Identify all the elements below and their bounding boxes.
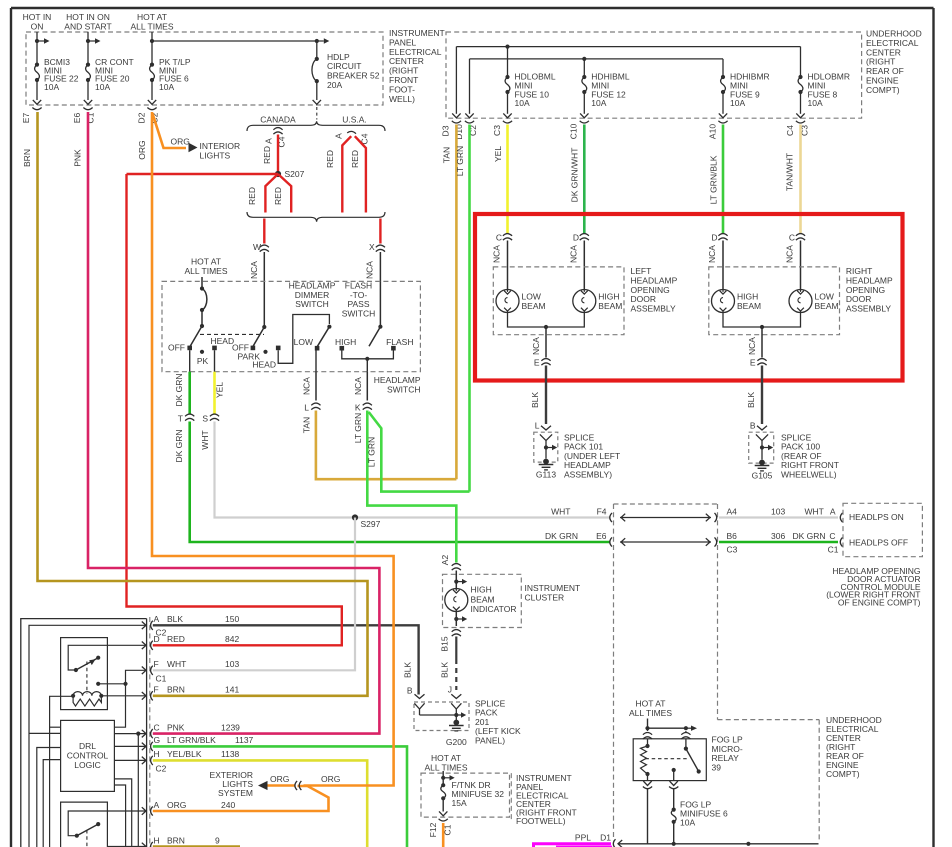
left headlamp opening door assembly box (493, 267, 624, 335)
svg-text:DK GRN: DK GRN (793, 531, 826, 541)
wire fuse22 out (36, 80, 38, 100)
wire NCA from W (263, 252, 265, 327)
wire BLK right to splice G105 (761, 366, 763, 425)
wire RED to X (379, 219, 381, 244)
node fog coil bottom (645, 772, 649, 776)
node dimmer common W (262, 325, 266, 329)
wire logic box pin right lower 2 (114, 785, 125, 847)
svg-text:HOT AT: HOT AT (191, 257, 221, 267)
brace CANADA/USA (top) (247, 121, 385, 131)
splice pack 101 box (534, 432, 558, 462)
svg-text:HOT AT: HOT AT (636, 699, 666, 709)
arrow into G200 right (451, 694, 461, 698)
splice Y G105 (756, 434, 768, 447)
arrow to exterior lights system (258, 781, 268, 790)
underhood electrical center box (top right) (446, 32, 862, 118)
connector A10 (718, 121, 727, 123)
wire LT GRN/BLK row G down (153, 746, 407, 847)
svg-text:E: E (534, 358, 540, 368)
svg-text:BEAM: BEAM (815, 301, 839, 311)
lamp HIGH BEAM INDICATOR (445, 589, 468, 612)
lamp LOW BEAM (left) (496, 290, 519, 313)
connector X (376, 245, 385, 247)
lamp HIGH BEAM (left) (573, 290, 596, 313)
svg-text:C2: C2 (156, 764, 167, 774)
arrow into splice G113 (541, 426, 551, 430)
svg-text:OF ENGINE COMPT): OF ENGINE COMPT) (838, 598, 921, 608)
right headlamp opening door assembly box (709, 267, 840, 335)
wire RED USA right leg (355, 136, 366, 212)
svg-text:YEL/BLK: YEL/BLK (167, 749, 202, 759)
wire RED row D path (127, 174, 342, 645)
connector switch feed (685, 731, 687, 732)
wire NCA to left low lamp (507, 241, 509, 290)
svg-text:B: B (750, 421, 756, 431)
fuse HDHIBMR MINI FUSE 9 (722, 59, 724, 77)
svg-text:SYSTEM: SYSTEM (218, 788, 253, 798)
svg-text:TAN: TAN (442, 147, 452, 163)
node F/TNK feed (441, 776, 445, 780)
connector pin F WHT 103 (142, 667, 146, 675)
terminal HEAD (selector) (276, 346, 281, 351)
node fog switch pivot (684, 747, 688, 751)
svg-text:ORG: ORG (137, 140, 147, 159)
svg-text:CANADA: CANADA (260, 115, 296, 125)
svg-text:E7: E7 (21, 113, 31, 124)
instrument panel electrical center box (top) (26, 32, 383, 105)
connector C (right low beam) (796, 234, 805, 236)
ground G200 (453, 720, 459, 726)
wire BRN row F from E7 (38, 112, 368, 696)
wire feed bus 2 (lower) (470, 58, 724, 60)
wire NCA to left high lamp (583, 241, 585, 290)
svg-text:10A: 10A (808, 98, 823, 108)
svg-text:C3: C3 (727, 545, 738, 555)
svg-text:DK GRN: DK GRN (174, 373, 184, 406)
svg-text:BRN: BRN (22, 149, 32, 167)
svg-text:103: 103 (771, 507, 785, 517)
node bus tap (746, 842, 750, 846)
svg-text:YEL: YEL (493, 146, 503, 162)
connector A / C4 (Canada) (273, 128, 282, 130)
terminal PARK (263, 350, 267, 354)
wire LT GRN/BLK from A10 (722, 125, 725, 234)
svg-text:F12: F12 (428, 822, 438, 837)
switch blade park/head to OFF (253, 327, 264, 346)
svg-text:NCA: NCA (249, 261, 259, 279)
svg-text:HOT AT: HOT AT (431, 753, 461, 763)
svg-text:PANEL): PANEL) (475, 735, 505, 745)
svg-text:HEADLPS ON: HEADLPS ON (849, 512, 904, 522)
wire G200 tap to ground (455, 715, 457, 720)
svg-text:C: C (154, 722, 160, 732)
terminal OFF (rotary) (187, 346, 192, 351)
svg-text:C1: C1 (156, 674, 167, 684)
fuse F/TNK DR MINIFUSE 32 15A element (441, 785, 446, 798)
arrow bus left (618, 840, 622, 847)
connector C (left low beam) (503, 234, 512, 236)
headlamp door actuator control module box (843, 503, 922, 556)
arrow tap right (88, 40, 95, 42)
splice pack 201 box (414, 702, 469, 731)
svg-text:10A: 10A (44, 82, 59, 92)
fuse FOG LP MINIFUSE 6 10A element (671, 810, 676, 822)
svg-text:COMPT): COMPT) (866, 85, 900, 95)
node indicator tap bottom (454, 617, 458, 621)
svg-text:HEADLPS OFF: HEADLPS OFF (849, 538, 908, 548)
wire HEAD elbow to dimmer (278, 315, 329, 364)
connector S (210, 414, 219, 416)
wire ORG to break (left) (268, 784, 295, 787)
wire F/TNK out (442, 798, 444, 811)
svg-text:C10: C10 (569, 123, 579, 139)
connector pin D RED 842 (142, 642, 146, 650)
wire fog relay feed (647, 719, 649, 732)
arrow G113 tap (552, 445, 557, 450)
svg-text:A: A (830, 507, 836, 517)
node breaker feed (315, 39, 319, 43)
connector C4 / C3 (796, 121, 805, 123)
svg-text:HEAD: HEAD (211, 336, 235, 346)
node fog feed right (684, 726, 688, 730)
svg-text:20A: 20A (327, 80, 342, 90)
DRL connector dashed line (149, 617, 151, 847)
connector pin A ORG 240 (142, 807, 146, 815)
node relay pivot (74, 668, 78, 672)
wire fuse feed PK T/LP (151, 32, 153, 65)
wire BLK left to splice G113 (545, 366, 547, 425)
svg-text:A10: A10 (708, 124, 718, 139)
svg-text:NCA: NCA (492, 245, 502, 263)
splice Y G200 left (414, 703, 424, 715)
connector E (right) (757, 359, 766, 361)
mechanical link relay dashed (86, 662, 88, 694)
node relay contact out (96, 682, 100, 686)
wire logic box pin to row G (114, 745, 146, 747)
svg-text:H: H (154, 835, 160, 845)
wire logic box pin to row C PNK (114, 733, 146, 735)
wire DK GRN from T to E6 row (190, 422, 610, 543)
svg-text:HIGH: HIGH (471, 585, 492, 595)
svg-text:WHT: WHT (200, 430, 210, 449)
wire nested vertical 3 (43, 760, 60, 847)
node G113 tap (544, 445, 548, 449)
svg-text:ALL TIMES: ALL TIMES (131, 22, 174, 32)
wire jumper DK GRN inside box (620, 541, 711, 543)
wire RED to W (263, 219, 265, 244)
wire BLK dashed to J (455, 659, 457, 690)
svg-text:NCA: NCA (569, 245, 579, 263)
wire G200 bus (420, 714, 462, 716)
wire fog bus (618, 843, 819, 845)
svg-text:150: 150 (225, 614, 239, 624)
connector E6 / C1 (83, 108, 92, 110)
svg-text:A: A (154, 800, 160, 810)
svg-text:10A: 10A (680, 818, 695, 828)
arrow into G200 left (415, 694, 425, 698)
svg-text:E6: E6 (596, 531, 607, 541)
inductor relay coil (scallops) (73, 692, 101, 696)
svg-text:10A: 10A (591, 98, 606, 108)
svg-text:PNK: PNK (73, 149, 83, 167)
terminal LOW (315, 346, 320, 351)
connector F4 (610, 513, 612, 522)
wire F/TNK feed (442, 771, 444, 785)
label INSTRUMENT PANEL ELECTRICAL CENTER (lower) (510, 773, 512, 822)
connector coil feed (643, 733, 652, 735)
svg-text:X: X (369, 242, 375, 252)
svg-text:LT GRN/BLK: LT GRN/BLK (167, 735, 216, 745)
svg-text:RED: RED (247, 187, 257, 205)
wire fuse feed BCMI3 (36, 32, 38, 65)
wire RED S207 right branch down (278, 174, 291, 213)
connector pin H BRN 9 (142, 843, 146, 847)
connector K (363, 403, 372, 405)
wire WHT from S to S297/F4 (215, 422, 610, 518)
wire ORG branch interior lights (153, 114, 187, 149)
wire TAN/WHT from C4 (799, 125, 802, 234)
wire RED USA left leg (342, 136, 351, 212)
connector pin F BRN 141 (142, 692, 146, 700)
wire ORG below F12 (442, 823, 445, 847)
svg-text:K: K (355, 403, 361, 413)
svg-text:A4: A4 (727, 507, 738, 517)
instrument panel electrical center box (lower) (421, 773, 510, 817)
connector L (311, 403, 320, 405)
connector C10 (580, 121, 589, 123)
wire fuse feed CR CONT (87, 32, 89, 65)
wire row A ORG into lower switch (68, 811, 146, 836)
svg-text:A: A (264, 138, 274, 144)
node fuse6 feed (150, 39, 154, 43)
svg-text:15A: 15A (452, 798, 467, 808)
wire G113 to ground (545, 448, 547, 459)
connector A (module) (840, 513, 842, 522)
connector C/C1 (module) (840, 537, 842, 546)
page border frame (11, 7, 934, 9)
svg-text:TAN: TAN (302, 417, 312, 433)
headlamp switch assembly box (162, 281, 420, 371)
connector D3 (452, 121, 461, 123)
svg-text:U.S.A.: U.S.A. (342, 115, 367, 125)
wire RED S207 to DRL (left) (127, 173, 279, 175)
splice Y G113 (540, 434, 552, 447)
svg-text:B15: B15 (440, 636, 450, 651)
wire coil left out (50, 696, 74, 847)
connector A4 (715, 513, 717, 522)
connector pin C PNK 1239 (142, 730, 146, 738)
instrument cluster / indicator box (443, 574, 522, 627)
node S207 splice (275, 171, 281, 177)
arrow G200 tap (461, 712, 466, 717)
relay box FOG LP MICRO-RELAY 39 (633, 739, 706, 781)
switch blade flash (neutral) (369, 327, 380, 347)
DRL CONTROL LOGIC box (61, 720, 115, 791)
svg-text:FOOTWELL): FOOTWELL) (516, 816, 566, 826)
wire indicator out (455, 611, 457, 627)
wire F WHT junction down to logic box (114, 684, 125, 727)
connector D10 / C2 (465, 121, 474, 123)
svg-text:BLK: BLK (746, 392, 756, 408)
arrow tap right (317, 40, 324, 42)
svg-text:SWITCH: SWITCH (295, 299, 329, 309)
connector F12 / C1 (439, 819, 448, 821)
ground G105 (759, 460, 765, 466)
wire TAN from D3 (455, 125, 458, 480)
arrow into splice G105 (757, 426, 767, 430)
svg-text:BLK: BLK (440, 662, 450, 678)
connector pin G LT GRN/BLK 1137 (142, 743, 146, 751)
svg-text:DK GRN: DK GRN (545, 531, 578, 541)
wire feed bus 1 (upper) (456, 46, 800, 48)
svg-text:10A: 10A (515, 98, 530, 108)
svg-text:HOT IN: HOT IN (23, 12, 52, 22)
wire NCA below LOW (315, 372, 317, 401)
wire row F WHT net (126, 670, 147, 684)
svg-text:G200: G200 (446, 737, 467, 747)
svg-text:842: 842 (225, 634, 239, 644)
svg-text:F: F (154, 685, 159, 695)
wire RED canada to S207 (277, 135, 279, 175)
wire dashed stub breaker to brace (316, 107, 318, 120)
svg-text:1138: 1138 (221, 749, 240, 759)
svg-text:LOW: LOW (522, 292, 541, 302)
svg-text:COMPT): COMPT) (826, 769, 860, 779)
wire row H BRN stub (107, 846, 146, 847)
node flash pivot (378, 325, 382, 329)
svg-text:H: H (154, 749, 160, 759)
svg-text:ON: ON (31, 22, 44, 32)
connector D (right high beam) (718, 234, 727, 236)
terminal OFF (selector) (251, 346, 256, 351)
svg-text:A: A (154, 614, 160, 624)
connector T (185, 414, 194, 416)
node F WHT junction (123, 682, 127, 686)
wire OFF terminal down (rotary) (189, 350, 191, 372)
svg-text:LT GRN: LT GRN (455, 146, 465, 176)
splice Y G200 right (451, 703, 461, 715)
node left lamps junction (544, 325, 548, 329)
svg-text:C2: C2 (156, 627, 167, 637)
svg-text:103: 103 (225, 659, 239, 669)
svg-text:B6: B6 (727, 531, 738, 541)
svg-text:LT GRN: LT GRN (353, 413, 363, 443)
wire coil to box bottom (647, 774, 649, 781)
connector E6 (610, 537, 612, 546)
svg-text:SWITCH: SWITCH (387, 384, 421, 394)
svg-text:NCA: NCA (302, 377, 312, 395)
wire NCA left assembly out (545, 327, 547, 358)
wire fog coil to bus (647, 789, 649, 844)
connector E7 (32, 108, 41, 110)
svg-text:HEAD: HEAD (252, 360, 276, 370)
svg-text:ORG: ORG (167, 800, 186, 810)
svg-text:FLASH: FLASH (386, 337, 413, 347)
svg-text:CONTROL: CONTROL (67, 751, 109, 761)
svg-text:C: C (789, 233, 795, 243)
wire K down inside box (366, 359, 368, 372)
connector D (left high beam) (580, 234, 589, 236)
svg-text:BLK: BLK (530, 392, 540, 408)
svg-text:D: D (711, 233, 717, 243)
svg-text:BEAM: BEAM (737, 301, 761, 311)
arrow output out (670, 781, 678, 785)
svg-text:ORG: ORG (270, 774, 289, 784)
svg-text:HOT AT: HOT AT (137, 12, 167, 22)
fuse CR CONT MINI FUSE 20 10A element (86, 65, 91, 80)
tall dashed box (headlamp door actuator harness) (614, 503, 718, 505)
fuse PK T/LP MINI FUSE 6 10A element (150, 65, 155, 80)
svg-text:DK GRN/WHT: DK GRN/WHT (570, 148, 580, 203)
svg-text:NCA: NCA (531, 337, 541, 355)
node fog relay output (672, 768, 676, 772)
relay box (DRL lower switch) (61, 802, 108, 847)
wire DK GRN above T (188, 372, 191, 414)
connector C3 (503, 121, 512, 123)
svg-text:ORG: ORG (171, 137, 190, 147)
wire ORG row A (240) (153, 786, 329, 811)
node lower switch pivot (75, 834, 79, 838)
lamp LOW BEAM (right) (789, 290, 812, 313)
wire YEL above S (213, 372, 216, 414)
wire left lamps common (508, 313, 585, 328)
svg-text:39: 39 (712, 763, 722, 773)
svg-text:HIGH: HIGH (335, 337, 356, 347)
switch blade (rotary) to OFF (190, 326, 202, 346)
wire BRN row H (9) (153, 845, 240, 847)
node G105 tap (760, 445, 764, 449)
wire fog output to box bottom (673, 770, 675, 781)
svg-text:INSTRUMENT: INSTRUMENT (525, 583, 581, 593)
svg-text:D2: D2 (137, 112, 147, 123)
svg-text:WHT: WHT (167, 659, 186, 669)
node dimmer pivot (327, 325, 331, 329)
svg-text:C1: C1 (828, 545, 839, 555)
svg-text:D1: D1 (600, 833, 611, 843)
svg-text:G105: G105 (752, 471, 773, 481)
svg-text:C4: C4 (785, 125, 795, 136)
wire TAN from L to D3 column (316, 411, 457, 480)
svg-text:BRN: BRN (167, 685, 185, 695)
wire nested vertical 2 (37, 748, 61, 847)
wire DK GRN/WHT from C10 (583, 125, 586, 234)
svg-text:ASSEMBLY): ASSEMBLY) (564, 469, 612, 479)
node bus fuse join (672, 842, 676, 846)
wire NCA from X (379, 252, 381, 327)
svg-text:F: F (154, 659, 159, 669)
svg-text:9: 9 (215, 835, 220, 845)
wire WHT to HEADLPS ON (719, 516, 838, 518)
svg-text:YEL: YEL (215, 382, 225, 398)
svg-text:S207: S207 (285, 169, 305, 179)
svg-text:WHEELWELL): WHEELWELL) (781, 469, 837, 479)
wire YEL/BLK row H down (153, 760, 367, 847)
svg-text:S: S (202, 414, 208, 424)
svg-text:BEAM: BEAM (471, 594, 495, 604)
terminal HIGH (340, 346, 345, 351)
svg-text:INDICATOR: INDICATOR (471, 604, 517, 614)
node fog coil top (645, 744, 649, 748)
svg-text:10A: 10A (730, 98, 745, 108)
wire LT GRN branch K to high-beam indicator (367, 411, 456, 563)
svg-text:A: A (334, 133, 344, 139)
wire stub A to logic box (29, 732, 61, 734)
connector D2 / C2 (147, 108, 156, 110)
wire RED S207 left branch down (265, 174, 278, 213)
svg-text:ASSEMBLY: ASSEMBLY (631, 304, 677, 314)
svg-text:306: 306 (771, 531, 785, 541)
svg-text:OFF: OFF (168, 343, 185, 353)
